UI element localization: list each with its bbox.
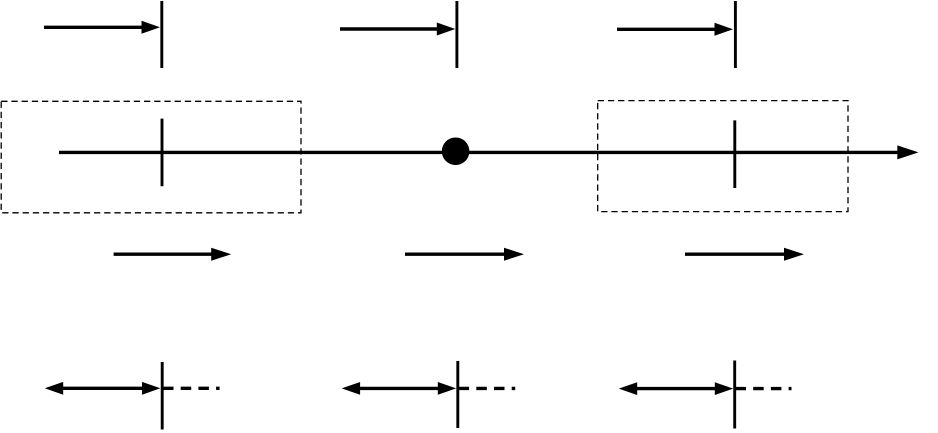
double arrow D3 (bottom right)	[619, 382, 733, 395]
origin dot (filled node on axis)	[442, 138, 470, 166]
wall tick T1 (top left)	[160, 1, 163, 68]
dashed stub S2 (right of V2)	[459, 387, 516, 390]
arrow A3 (top right, points right at T3)	[617, 23, 733, 36]
double arrow D1 (bottom left)	[45, 382, 161, 395]
arrow A1 (top left, points right at T1)	[44, 21, 160, 34]
dashed stub S3 (right of V3)	[736, 387, 792, 390]
arrow A2 (top middle, points right at T2)	[340, 23, 455, 36]
wall tick T2 (top middle)	[455, 1, 458, 68]
arrow B2 (middle row center, free arrow)	[405, 248, 524, 261]
bottom tick V3	[733, 361, 736, 429]
axis line with right arrowhead	[59, 145, 919, 159]
wall tick T3 (top right)	[734, 1, 737, 68]
arrow B3 (middle row right, free arrow)	[685, 248, 804, 261]
axis tick M2 (crosses axis, right)	[733, 120, 736, 188]
bottom tick V2	[456, 361, 459, 428]
dashed stub S1 (right of V1)	[163, 387, 220, 390]
left dashed box	[1, 101, 301, 213]
double arrow D2 (bottom middle)	[342, 382, 457, 395]
arrow B1 (middle row left, free arrow)	[114, 248, 232, 261]
right dashed box	[598, 101, 848, 212]
axis tick M1 (crosses axis, left)	[161, 119, 164, 187]
bottom tick V1	[161, 362, 164, 430]
